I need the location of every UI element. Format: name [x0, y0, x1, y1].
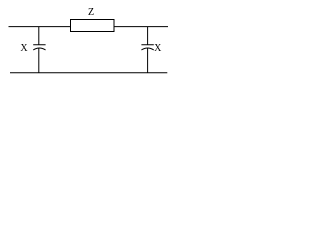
wire: left shunt branch lower stub — [38, 48, 40, 72]
impedance Z (series element box) — [71, 20, 115, 32]
capacitor X (left shunt): curved bottom plate — [33, 48, 45, 50]
capacitor X (left shunt): straight top plate — [33, 44, 45, 46]
wire: right shunt branch upper stub — [147, 27, 149, 45]
svg-text:X: X — [20, 43, 28, 54]
capacitor X (right shunt): straight top plate — [141, 44, 153, 46]
wire: top rail right segment — [114, 26, 168, 28]
wire: top rail left segment — [9, 26, 71, 28]
capacitor X (right shunt): curved bottom plate — [141, 48, 153, 50]
svg-text:X: X — [154, 43, 162, 54]
wire: left shunt branch upper stub — [38, 27, 40, 45]
wire: right shunt branch lower stub — [147, 48, 149, 72]
svg-text:Z: Z — [88, 7, 94, 18]
wire: bottom rail — [10, 72, 167, 74]
